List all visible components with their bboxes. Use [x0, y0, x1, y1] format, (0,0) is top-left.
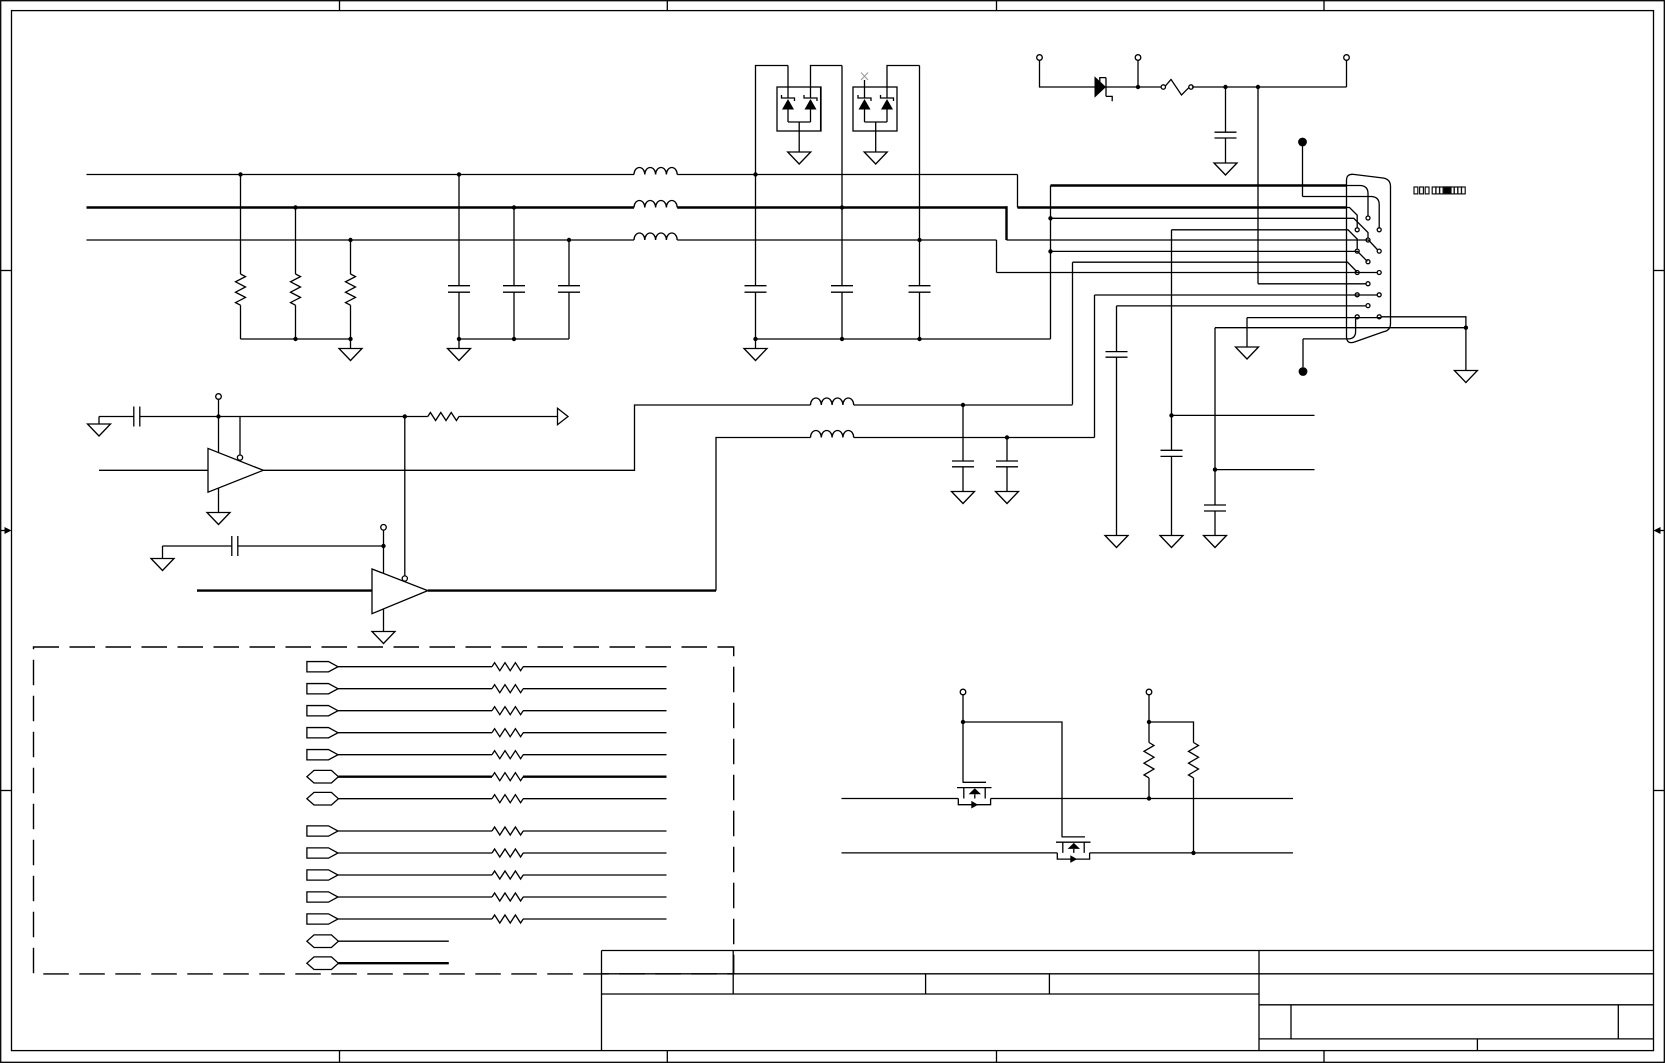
- dashed option box: [34, 647, 734, 974]
- port P14: [307, 957, 449, 970]
- junction rail C2: [512, 337, 516, 341]
- diode D3 (power input): [1095, 76, 1113, 101]
- capacitor C3 (to bus line 3): [558, 240, 580, 339]
- wire upper channel to connector riser: [854, 262, 1073, 405]
- wire ground vertical x=1215 (thick) with cap C9: [1214, 328, 1216, 505]
- junction T2 / rail: [1136, 85, 1140, 89]
- terminal dot (big) bottom left of connector: [1299, 367, 1308, 376]
- wire M5 net vertical x=1116.5 with cap C10 and ground: [1116, 306, 1118, 352]
- wire capacitor bottom rail: [459, 338, 569, 340]
- MOSFET Q1: [957, 782, 992, 808]
- wire AC net vertical x=1171.5 with cap C8 and ground: [1171, 230, 1173, 450]
- junction rail / C7: [1223, 85, 1227, 89]
- capacitor C13: [952, 405, 974, 492]
- junction C2 top: [512, 205, 516, 209]
- title block outer: [602, 951, 1654, 1051]
- MOSFET Q2: [1056, 837, 1091, 863]
- junction rail C5: [840, 337, 844, 341]
- wire filter cap bottom rail to shield vertical: [756, 338, 1051, 340]
- wire stub branch right at y=415.4: [1172, 414, 1315, 416]
- capacitor C6 on vertical x=919.5: [909, 286, 931, 339]
- ground under C7: [1214, 163, 1237, 175]
- border zone tick bottom 2: [666, 1051, 668, 1063]
- ground under U2: [372, 609, 395, 644]
- wire fuse to corner at T3: [1192, 86, 1347, 88]
- capacitor C5 on vertical x=842: [831, 286, 853, 339]
- terminal dot (big) top of connector sense wire: [1298, 138, 1307, 147]
- wire video channel A into connector pin L3: [1073, 262, 1357, 271]
- junction C1 top: [457, 172, 461, 176]
- border zone tick top 1: [339, 1, 341, 11]
- port P4: [307, 728, 667, 738]
- TVS D1 common anode and ground: [788, 122, 811, 164]
- junction right ground drop: [1464, 326, 1468, 330]
- junction C11 / U1 feed: [216, 414, 220, 418]
- wire Q1 gate feed: [962, 695, 964, 783]
- wire U1 bubble up to feedback rail: [239, 417, 241, 456]
- junction bus line 2 / vertical x=842: [840, 205, 844, 209]
- junction R3 top: [348, 238, 352, 242]
- resistor R3 (to bus line 3): [346, 240, 356, 339]
- junction shield branch 1: [1048, 216, 1052, 220]
- ground under R3: [339, 339, 362, 361]
- wire bus line 2 jog down into connector pin R2: [1005, 206, 1007, 240]
- wire shield vertical x=1050.5: [1050, 186, 1052, 339]
- capacitor C2 (to bus line 2): [503, 208, 525, 340]
- terminal circle above U1: [216, 394, 222, 400]
- ground left of input cap C11: [88, 417, 111, 437]
- junction upper channel / cap C13: [961, 403, 965, 407]
- inductor L5 (lower channel): [811, 431, 854, 438]
- border zone tick right lower: [1654, 790, 1665, 792]
- capacitor C14: [996, 438, 1018, 492]
- wire cap net into connector pin M5: [1117, 305, 1367, 307]
- port P3: [307, 706, 667, 716]
- wire U1 output to upper channel: [263, 405, 810, 470]
- wire line 1 (upper MOSFET rail): [842, 798, 1294, 800]
- TVS diode pack D1 box: [777, 87, 821, 131]
- capacitor C1 (to bus line 1): [448, 175, 470, 340]
- ground on stub at x=1247: [1236, 318, 1259, 359]
- wire bus line 1 (top, thin): [87, 174, 635, 176]
- junction C3 top: [567, 238, 571, 242]
- junction C12 / U2 feed: [381, 544, 385, 548]
- wire line 2 (lower MOSFET rail): [842, 852, 1294, 854]
- border zone tick right upper: [1654, 270, 1665, 272]
- capacitor C4 on vertical x=755.5: [745, 175, 767, 340]
- wire lower channel to connector riser: [854, 295, 1095, 438]
- ground under U1: [207, 488, 230, 524]
- connector J1 pin circles right column: [1377, 228, 1381, 232]
- ground under C4: [744, 339, 767, 361]
- border zone tick top 4: [1323, 1, 1325, 11]
- junction gate node Q1: [961, 720, 965, 724]
- wire vertical x=842 (TVS D1 to bus line 2 and cap): [841, 66, 843, 286]
- port P1: [307, 662, 667, 672]
- border zone tick top 3: [996, 1, 998, 11]
- wire U2 input (thick): [197, 589, 372, 591]
- junction rail C4: [753, 337, 757, 341]
- wire grounded stub into connector pin L5: [1247, 317, 1381, 319]
- resistor R2 (to bus line 2): [291, 208, 301, 340]
- capacitor C7 (power rail bypass): [1215, 87, 1237, 163]
- wire from big dot down and right into connector: [1302, 142, 1304, 197]
- wire D3 to T2 node: [1105, 86, 1162, 88]
- wire U2 output thick run: [428, 589, 716, 591]
- terminal circle T1 (top right): [1037, 55, 1043, 61]
- terminal circle above R5/R6: [1146, 689, 1152, 695]
- wire power feed into connector pin M4: [1258, 283, 1366, 285]
- TVS D1 right diode: [804, 95, 817, 122]
- wire AC-coupled net into connector pin L2: [1172, 230, 1358, 249]
- border zone tick bottom 3: [996, 1051, 998, 1063]
- wire shield branch 1 into connector pin M2: [1051, 218, 1369, 238]
- op-amp U1 (buffer): [208, 448, 263, 492]
- junction bus line 1 / vertical: [753, 172, 757, 176]
- wire U2 output up to lower channel: [716, 438, 811, 591]
- TVS D2 right diode: [881, 95, 894, 122]
- wire terminal down through junction into U2 top: [383, 530, 385, 573]
- wire resistor node down to U2 bubble: [404, 417, 406, 576]
- junction resistor pair top: [1147, 720, 1151, 724]
- wire vertical from bus line 1 up to TVS D1: [756, 66, 789, 175]
- wire shield branch 2 into connector pin M3: [1051, 251, 1368, 261]
- connector J1 pin circles left column: [1355, 228, 1359, 232]
- wire U1 input: [99, 469, 208, 471]
- junction rail R3: [348, 337, 352, 341]
- port P5: [307, 750, 667, 760]
- border zone tick left lower: [1, 790, 12, 792]
- port P2: [307, 684, 667, 694]
- junction rail C6: [917, 337, 921, 341]
- wire TVS D1 right diode to vertical x=842: [811, 66, 843, 99]
- U1 enable bubble: [237, 455, 242, 460]
- ground right of connector: [1454, 328, 1477, 383]
- border zone tick top 2: [666, 1, 668, 11]
- wire connector pin R5 out right side to ground drop: [1381, 317, 1466, 328]
- op-amp U2 (buffer): [372, 569, 428, 614]
- wire resistor bottom rail: [241, 338, 351, 340]
- border centre arrow left: [1, 527, 12, 534]
- terminal circle T2: [1135, 55, 1141, 61]
- terminal circle above Q1: [960, 689, 966, 695]
- resistor R6 (pullup to line 2): [1189, 743, 1199, 853]
- ground under C9: [1204, 536, 1227, 548]
- capacitor C9: [1204, 505, 1226, 536]
- wire top node to R6: [1149, 722, 1194, 743]
- wire power feed vertical x=1258 down to connector pin row: [1257, 87, 1259, 284]
- ground under C8: [1160, 536, 1183, 548]
- TVS diode pack D2 box: [853, 87, 897, 131]
- capacitor C10: [1106, 352, 1128, 536]
- terminal circle T3: [1344, 55, 1350, 61]
- wire bus line 1 jog down and thick run into connector pin L1: [1017, 175, 1019, 208]
- no-connect X above D2 left diode: [861, 73, 868, 81]
- port P8: [307, 826, 667, 836]
- wire terminal to resistor pair: [1148, 695, 1150, 722]
- junction R6 / line 2: [1191, 851, 1195, 855]
- junction R1 top: [238, 172, 242, 176]
- junction R2 top: [293, 205, 297, 209]
- junction stub branch x=1171.5: [1169, 413, 1173, 417]
- junction stub branch x=1215: [1213, 467, 1217, 471]
- TVS D2 common anode and ground: [864, 122, 887, 164]
- wire gate node to Q2 gate: [963, 722, 1062, 837]
- ground under C1: [448, 339, 471, 361]
- wire sense net into connector pin R1: [1303, 197, 1380, 228]
- connector J1 pin circles middle column: [1366, 216, 1370, 220]
- wire bus line 3 jog down into connector pin R3: [996, 240, 998, 273]
- TVS D1 left diode: [782, 66, 795, 123]
- border zone tick bottom 4: [1323, 1051, 1325, 1063]
- junction rail C1: [457, 337, 461, 341]
- wire bottom entry to connector pin L5 from big dot: [1303, 319, 1356, 339]
- junction rail R2: [293, 337, 297, 341]
- wire T1 down to power rail: [1040, 60, 1096, 87]
- wire terminal down through junction into U1 top: [218, 399, 220, 452]
- capacitor C8: [1161, 450, 1183, 535]
- wire T3 down to rail: [1346, 60, 1348, 87]
- U2 enable bubble: [402, 576, 407, 581]
- junction lower channel / cap C14: [1005, 435, 1009, 439]
- connector label text (unrendered glyph boxes): [1414, 187, 1465, 194]
- ground left of input cap C12: [151, 546, 174, 571]
- terminal circle above U2: [381, 525, 387, 531]
- port P9: [307, 848, 667, 858]
- wire vertical x=919.5 (TVS D2 to bus line 3 and cap): [919, 66, 921, 286]
- ground under C10: [1105, 536, 1128, 548]
- wire T2 down to rail: [1137, 60, 1139, 87]
- border zone tick left upper: [1, 270, 12, 272]
- port P6: [307, 770, 667, 783]
- inductor L4 (upper channel): [811, 398, 854, 405]
- wire feedback rail to resistor node: [219, 416, 405, 418]
- port P12: [307, 914, 667, 924]
- TVS D2 left diode: [858, 80, 871, 122]
- wire bus line 2 (middle, thick): [87, 206, 635, 208]
- junction R5 / line 1: [1147, 796, 1151, 800]
- junction rail / power feed vertical: [1256, 85, 1260, 89]
- connector J1 body (D-sub 15): [1347, 174, 1391, 342]
- port P11: [307, 892, 667, 902]
- ground under C14: [996, 492, 1019, 504]
- border centre arrow right: [1654, 527, 1665, 534]
- inductor L1 on bus line 1: [634, 168, 677, 175]
- wire shield bus (thick) into connector pin M1: [1051, 184, 1347, 186]
- off-page arrow head: [558, 408, 569, 424]
- wire ground run under connector to right ground: [1215, 327, 1466, 329]
- capacitor C12 (series, horizontal): [163, 536, 384, 556]
- resistor R4 (series, horizontal): [405, 413, 558, 421]
- port P7: [307, 792, 667, 805]
- ground under C13: [952, 492, 975, 504]
- wire video channel B into connector pin L4: [1095, 294, 1378, 296]
- capacitor C11 (series, horizontal): [99, 407, 219, 427]
- fuse F1: [1161, 79, 1193, 95]
- wire stub branch right at y=469.6: [1215, 469, 1315, 471]
- border zone tick bottom 1: [339, 1051, 341, 1063]
- wire bus line 3 (bottom, thin): [87, 239, 635, 241]
- resistor R5 (pullup to line 1): [1144, 722, 1154, 799]
- junction resistor node: [403, 414, 407, 418]
- wire big dot vertical: [1302, 339, 1304, 367]
- port P10: [307, 870, 667, 880]
- wire TVS D2 right diode to vertical x=919.5: [887, 66, 920, 99]
- junction shield branch 2: [1048, 249, 1052, 253]
- port P13: [307, 935, 449, 948]
- inductor L3 on bus line 3: [634, 233, 677, 240]
- resistor R1 (to bus line 1): [236, 175, 246, 340]
- inductor L2 on bus line 2: [634, 201, 677, 208]
- junction bus line 3 / vertical x=919.5: [917, 238, 921, 242]
